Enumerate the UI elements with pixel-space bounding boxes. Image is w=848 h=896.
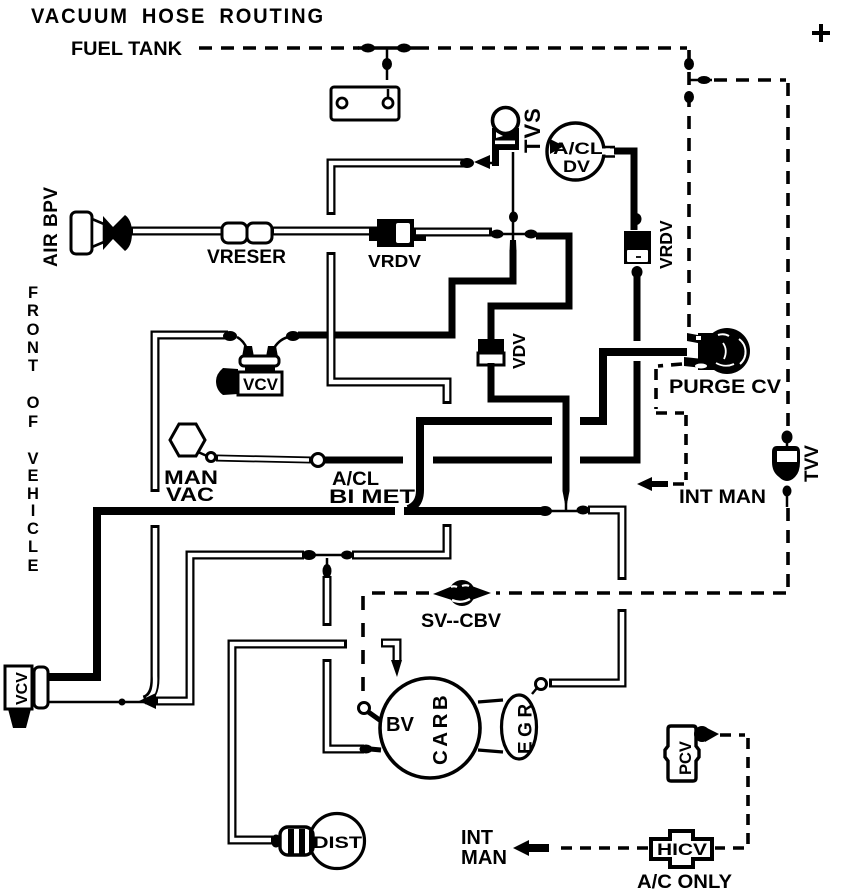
svg-text:O: O [27,321,40,339]
svg-text:F: F [28,413,38,431]
wire dashed PCV to HICV [715,735,748,848]
connector teardrop on dist branch [323,564,332,578]
wire carb-EGR neck bottom [478,750,503,752]
connector nub EGR hose end [577,506,590,515]
node dot on TVS line [509,212,518,223]
valve PCV [665,726,719,781]
node circle A/CL BI MET [312,454,325,467]
svg-text:N: N [27,339,39,357]
connector arrow at hose end to VCV2 [139,693,156,709]
hose x331 continues to corner y382 over to x447 [331,252,447,404]
hose EGR resumes below dashed to elbow [549,609,622,683]
wire drop to separator [386,48,389,80]
hose TVS feed horizontal and left vertical [331,163,465,215]
svg-text:T: T [28,357,38,375]
hose x447 resumes down corner left along y555 [352,524,447,555]
svg-text:O: O [27,394,40,412]
svg-text:A/C ONLY: A/C ONLY [637,872,732,893]
wire fuel tank solid segment [358,46,416,50]
svg-text:FUEL TANK: FUEL TANK [71,38,182,60]
hose into carb top from y643 [381,643,397,662]
wire node into carb BV [367,711,381,721]
hose dist branch lower segment to carb port [327,659,364,749]
wire A/CL DV to VRDV2 thick [610,151,634,230]
wire node to EGR top [532,688,537,694]
wire dashed vertical right x689 [687,50,691,331]
svg-text:BI MET: BI MET [329,487,416,508]
node dot x689 upper [684,58,694,70]
svg-text:L: L [28,538,38,556]
svg-text:A/CL: A/CL [553,140,603,158]
valve VCV2 bottom-left [5,666,48,728]
hose VRDV1 to center junction [414,228,492,237]
svg-text:SV--CBV: SV--CBV [421,610,501,632]
hose VRESER to VRDV1 [272,227,378,236]
hose AIR BPV to VRESER [131,227,224,236]
svg-text:TVS: TVS [520,107,545,153]
wire tee thin segment y555 [315,554,342,557]
svg-text:EGR: EGR [516,699,537,754]
valve VCV1 [216,337,282,395]
wire nub into carb edge [370,749,381,750]
node circle carb left [359,703,370,714]
svg-text:INT: INT [461,827,493,849]
TVS component [492,108,519,167]
svg-text:VRDV: VRDV [368,251,421,271]
valve TVV [772,431,800,508]
reservoir VRESER [222,223,272,243]
wire tee stub down [326,558,329,567]
svg-text:I: I [31,502,36,520]
hose MAN VAC to node [216,458,311,460]
wire VCV2 thin line [47,701,148,704]
connector nub y555 right of tee [341,551,353,560]
wire thin across lower junction [551,510,578,513]
connector arrow into carb top [391,660,402,677]
valve AIR BPV body [71,212,132,254]
hose x155 resumes below manifold curving to arrow [144,525,155,700]
EGR oval [502,695,537,759]
svg-text:VCV: VCV [14,672,31,705]
svg-text:VACUUM HOSE ROUTING: VACUUM HOSE ROUTING [31,4,325,28]
node marker on branch [698,76,711,84]
node small circle at hexagon [207,453,216,462]
valve VDV [478,339,504,365]
svg-text:VDV: VDV [509,333,529,369]
carburetor circle CARB [380,678,480,778]
wire nub to VCV1 right nozzle [273,337,288,350]
purge feed resumes to elbow up [580,352,687,421]
op amp A/CL DV circle [547,123,604,180]
connector arrow INT MAN right [637,477,668,491]
svg-text:PURGE CV: PURGE CV [669,377,781,398]
wire junction to VDV top loop [491,236,569,341]
hose carb-dist long run [232,644,347,840]
wire VRDV2 down to BI MET corner [580,276,637,460]
svg-text:E: E [27,467,38,485]
svg-text:AIR BPV: AIR BPV [41,186,62,267]
purge feed curve from manifold [408,421,552,509]
svg-text:DIST: DIST [313,834,362,852]
plus mark [812,24,830,42]
wire thin into lower junction [565,502,568,511]
connector nub at carb left port [360,745,373,754]
svg-text:H: H [27,485,39,503]
distributor DIST circle [310,814,365,869]
wire fuel tank dashed line [199,46,687,50]
svg-text:VAC: VAC [166,485,214,506]
svg-text:PCV: PCV [677,741,695,775]
wire TVS angled feed line [484,162,496,165]
svg-text:BV: BV [386,714,415,736]
hose y555 to left corner down x190 to bottom [155,555,304,701]
wire dashed vertical x788 upper [786,83,790,428]
wire junction cross thin [503,233,530,236]
connector nub at TVS hose right end [460,158,474,168]
wire dashed purge lower port path [656,364,686,484]
purge control valve body [684,328,750,374]
hose VCV1 left nozzle to corner x155 down [155,335,228,492]
svg-text:INT MAN: INT MAN [679,487,766,508]
connector nub at VCV1 left hose end [223,331,237,341]
svg-text:DV: DV [563,158,590,176]
connector arrow INT MAN bottom [513,840,549,856]
wire dashed vertical x363 down to carb node [361,596,365,701]
fuel vapor separator box [331,87,399,120]
connector nub left of junction [491,230,504,239]
node dot under VRDV2 [632,266,643,278]
svg-text:V: V [27,450,38,468]
wire branch solid at y80 [689,79,712,82]
manifold right segment [404,507,542,515]
wire VDV bottom loop to lower junction [491,363,566,491]
wire junction down to VCV1 path [512,234,515,252]
node dot on drop wire [382,58,392,70]
BI MET thick line mid part [433,457,552,464]
svg-text:C: C [27,520,39,538]
BI MET thick line left part [325,457,403,464]
valve SV--CBV [433,580,491,606]
connector stub at A/CL DV outlet [602,149,614,155]
svg-text:VRDV: VRDV [656,220,676,269]
node dot on VCV2 line [119,699,126,706]
svg-text:VRESER: VRESER [207,247,286,268]
wire hexagon to small node [198,452,207,456]
node dot above VRDV2 [631,213,642,225]
valve HICV [651,831,712,867]
wire dashed vertical x788 lower (TVV to corner) [786,508,790,591]
svg-text:MAN: MAN [461,847,507,869]
label FRONT OF VEHICLE vertical letters [27,284,40,575]
svg-text:F: F [28,284,38,302]
valve VRDV1 [369,219,426,247]
node circle above EGR [536,679,547,690]
svg-text:CARB: CARB [429,692,452,765]
connector nub right of junction [525,230,538,239]
connector blob at manifold right end [538,506,552,516]
manifold main thick line [47,511,395,677]
node marker on fuel line right [397,44,411,53]
node marker on fuel line left [361,44,375,53]
node dot x689 lower [684,91,694,103]
svg-text:TVV: TVV [802,445,823,482]
connector arrow at TVS feed hose end [474,155,490,169]
valve VRDV2 [624,231,651,264]
hose EGR line right and down [588,510,622,580]
svg-text:R: R [27,302,39,320]
wire branch dashed to x788 [714,78,786,82]
hose dist branch upper segment [323,576,332,626]
connector nub at VCV1 hose end [286,331,300,341]
wire TVS bottom thin line [512,152,515,233]
connector nub y555 left of tee [302,550,316,560]
connector ribbed at DIST [271,827,313,855]
wire dashed HICV to INT MAN arrow [554,846,648,850]
svg-text:HICV: HICV [657,841,707,859]
hexagon MAN VAC [170,424,205,456]
svg-text:VCV: VCV [243,375,279,394]
svg-text:E: E [27,557,38,575]
wire dashed horizontal y593 [364,591,786,595]
wire carb-EGR neck top [478,700,503,702]
taper end of VDV wire [563,491,570,504]
